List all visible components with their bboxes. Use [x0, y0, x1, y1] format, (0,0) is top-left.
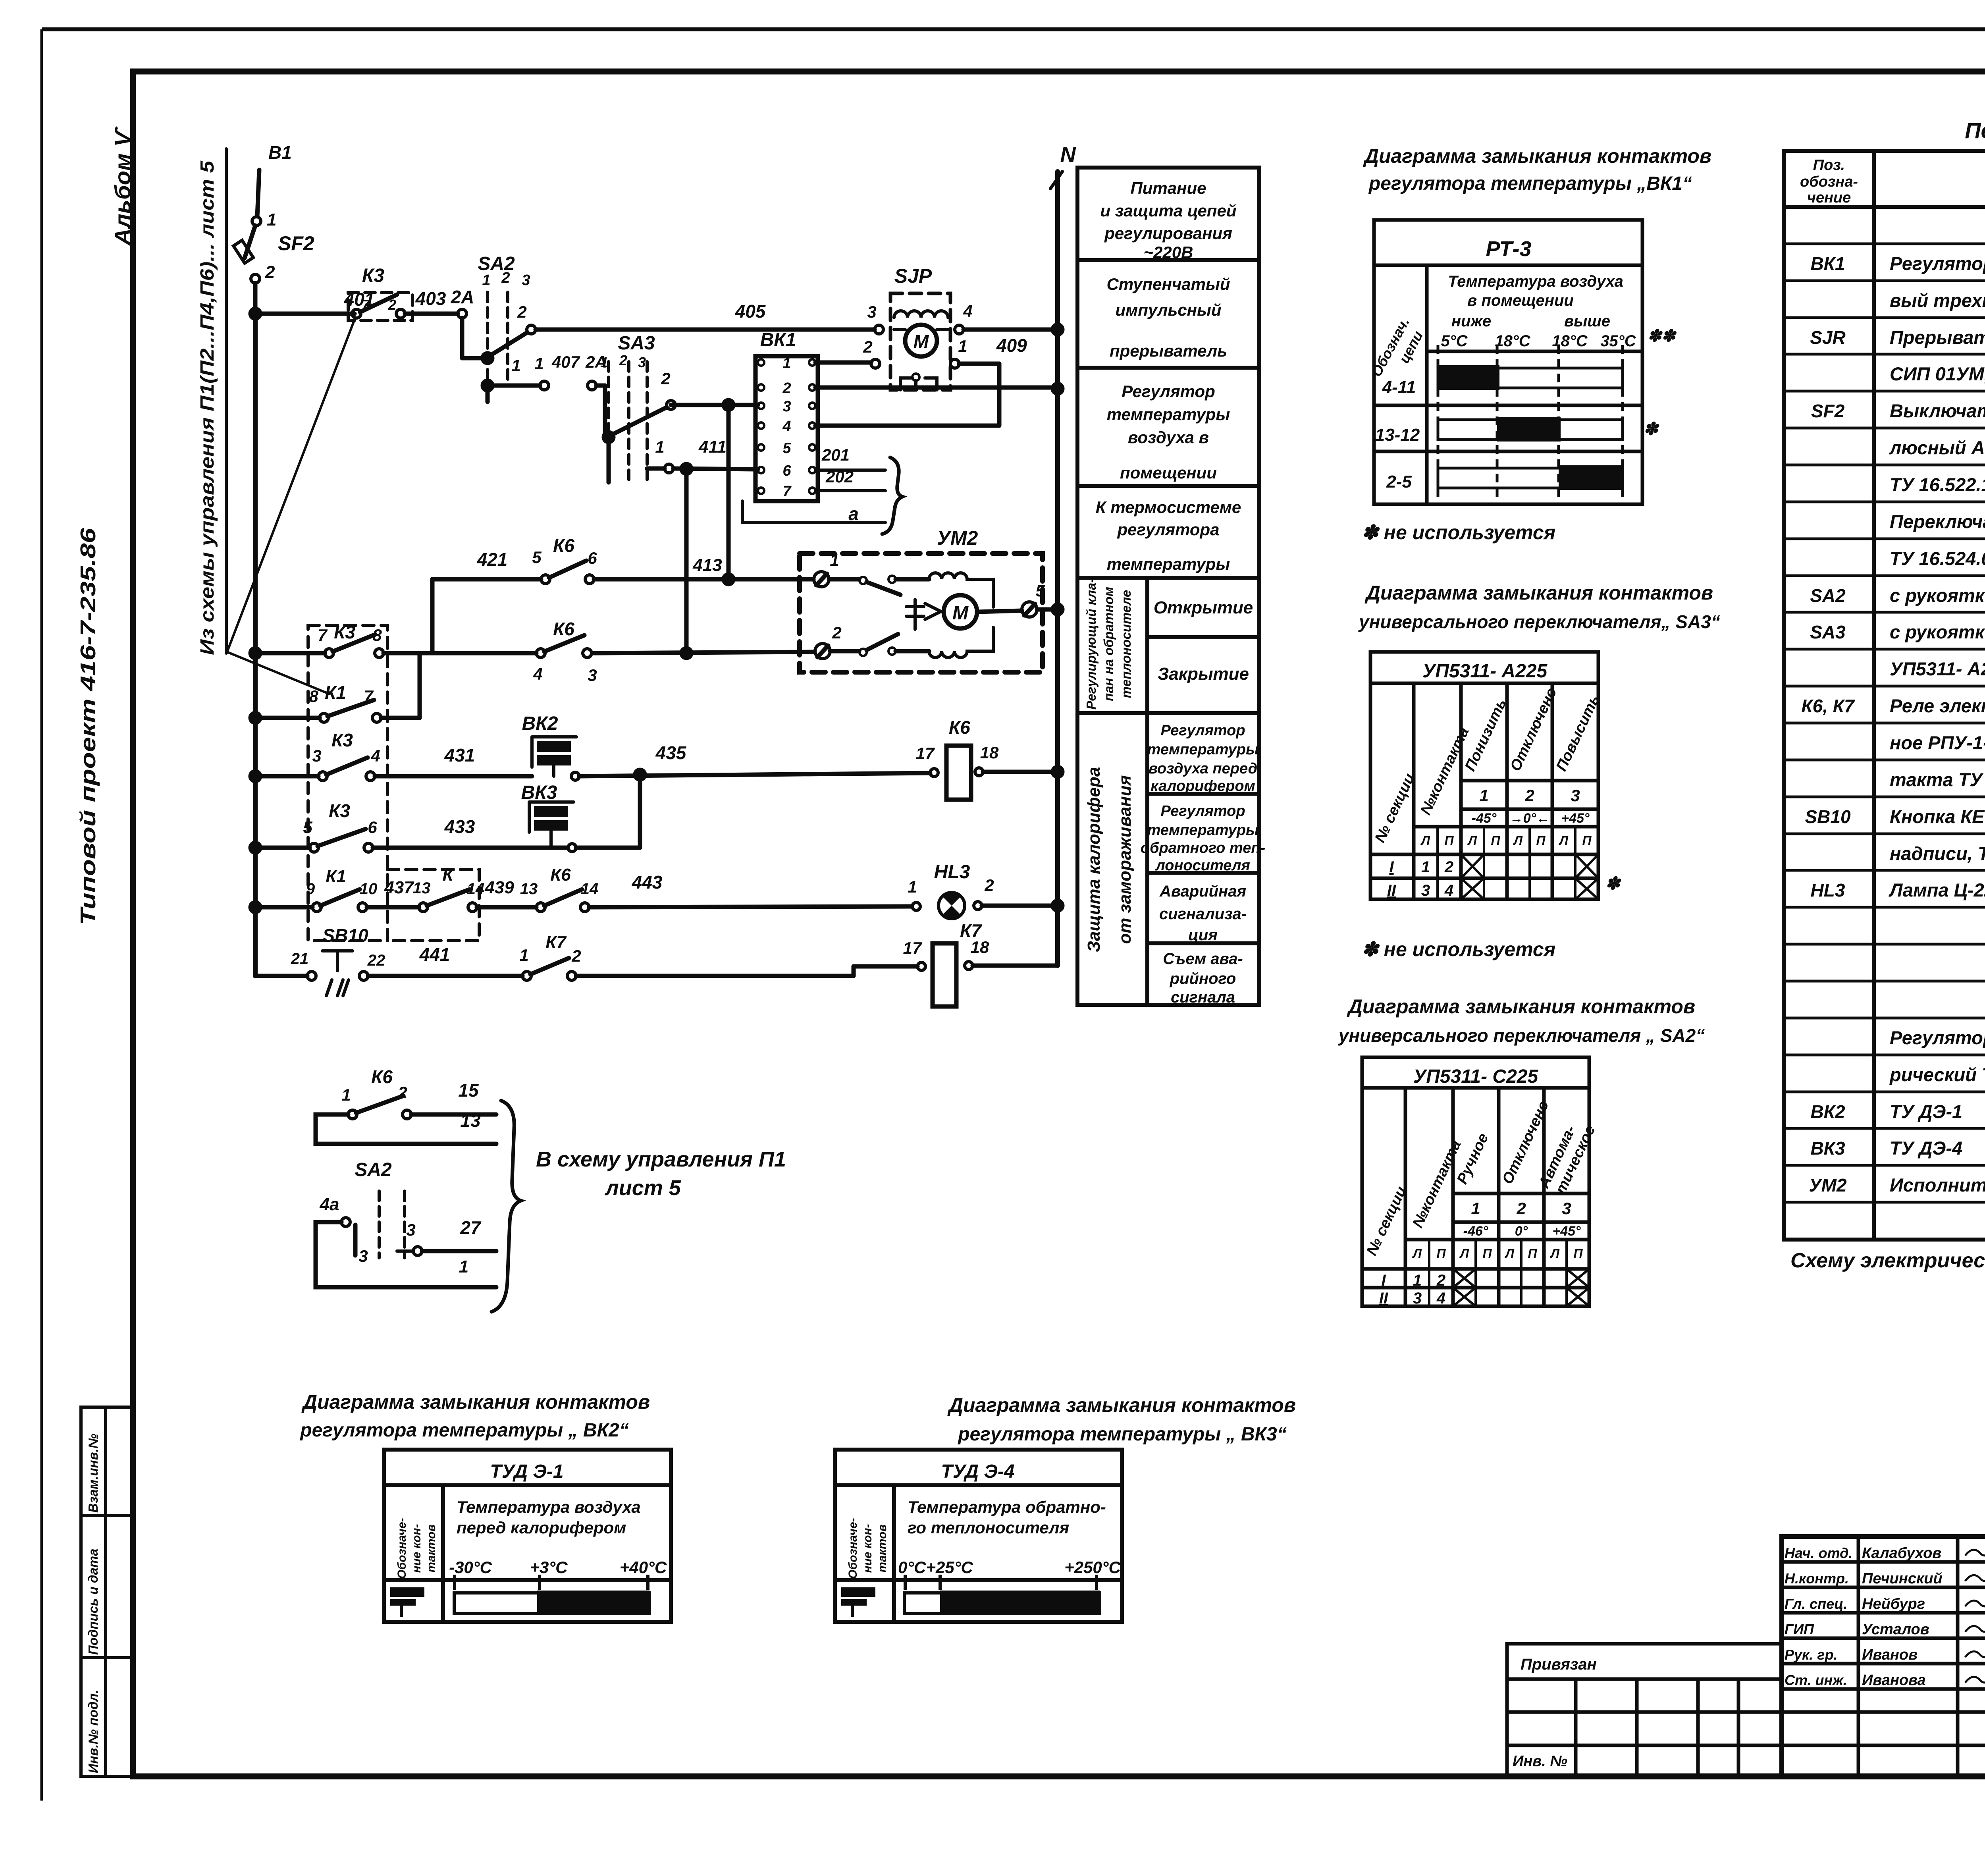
- svg-text:4: 4: [963, 302, 972, 320]
- svg-text:405: 405: [735, 301, 766, 322]
- svg-text:3: 3: [1571, 786, 1580, 805]
- svg-text:35°С: 35°С: [1600, 332, 1636, 350]
- svg-text:П: П: [1444, 833, 1454, 848]
- svg-text:5: 5: [303, 818, 312, 837]
- svg-text:ЅВ10: ЅВ10: [1805, 806, 1850, 827]
- svg-text:→0°←: →0°←: [1510, 811, 1550, 826]
- svg-text:регулирования: регулирования: [1104, 224, 1232, 243]
- svg-text:К3: К3: [362, 265, 385, 286]
- svg-text:0°С+25°С: 0°С+25°С: [898, 1558, 973, 1577]
- svg-text:Выключатель автоматический од: Выключатель автоматический однопо-: [1890, 400, 1985, 421]
- svg-text:Температура обратно-: Температура обратно-: [908, 1498, 1106, 1516]
- svg-text:9: 9: [306, 880, 315, 898]
- svg-text:Диаграмма замыкания контактов: Диаграмма замыкания контактов: [301, 1391, 650, 1413]
- svg-text:2: 2: [661, 369, 670, 388]
- svg-text:✽✽: ✽✽: [1648, 326, 1677, 345]
- svg-text:2А: 2А: [451, 287, 474, 307]
- svg-text:1: 1: [511, 356, 520, 375]
- svg-text:202: 202: [825, 467, 854, 486]
- svg-text:К6: К6: [949, 717, 970, 738]
- svg-text:II: II: [1387, 882, 1396, 899]
- svg-text:421: 421: [477, 549, 508, 570]
- svg-text:✽ не используется: ✽ не используется: [1362, 938, 1555, 960]
- svg-text:13-12: 13-12: [1375, 425, 1420, 445]
- svg-text:ние кон-: ние кон-: [861, 1524, 874, 1573]
- svg-text:✽: ✽: [1605, 874, 1622, 893]
- svg-text:ВК3: ВК3: [1810, 1138, 1845, 1159]
- svg-text:8: 8: [372, 626, 382, 644]
- svg-text:441: 441: [419, 944, 450, 965]
- svg-text:прерыватель: прерыватель: [1110, 341, 1227, 360]
- svg-text:П: П: [1536, 833, 1546, 848]
- svg-text:2: 2: [863, 337, 872, 356]
- svg-text:температуры: температуры: [1107, 555, 1230, 573]
- svg-text:Открытие: Открытие: [1154, 598, 1253, 617]
- svg-text:Л: Л: [1412, 1246, 1422, 1261]
- svg-text:17: 17: [903, 939, 922, 957]
- svg-text:2: 2: [619, 352, 627, 368]
- svg-text:Н.контр.: Н.контр.: [1785, 1570, 1849, 1587]
- svg-text:М: М: [913, 331, 929, 352]
- svg-text:Диаграмма замыкания контактов: Диаграмма замыкания контактов: [1364, 582, 1713, 604]
- svg-text:Исполнительный механизм М90-: Исполнительный механизм М90-063/63: [1890, 1174, 1985, 1195]
- svg-text:К3: К3: [334, 622, 355, 642]
- svg-text:обозна-: обозна-: [1800, 174, 1858, 190]
- svg-text:4: 4: [533, 665, 542, 683]
- svg-text:18: 18: [971, 938, 989, 956]
- svg-text:Рук. гр.: Рук. гр.: [1785, 1647, 1838, 1663]
- svg-text:Инв. №: Инв. №: [1513, 1753, 1567, 1770]
- svg-text:К6: К6: [553, 535, 574, 556]
- svg-text:14: 14: [581, 880, 599, 898]
- svg-text:3: 3: [1562, 1199, 1571, 1218]
- svg-text:Регулирующий кла-: Регулирующий кла-: [1084, 578, 1098, 710]
- svg-text:2: 2: [984, 876, 994, 895]
- svg-text:3: 3: [867, 303, 876, 321]
- svg-text:27: 27: [460, 1217, 482, 1238]
- svg-text:14: 14: [467, 880, 485, 898]
- svg-text:Обозначе-: Обозначе-: [395, 1518, 409, 1579]
- svg-text:Печинский: Печинский: [1862, 1570, 1943, 1587]
- svg-text:го теплоносителя: го теплоносителя: [908, 1518, 1069, 1537]
- svg-text:ВК2: ВК2: [1810, 1101, 1845, 1122]
- svg-text:Регулятор: Регулятор: [1160, 722, 1245, 739]
- svg-text:1: 1: [267, 210, 276, 229]
- svg-text:1: 1: [482, 272, 490, 289]
- svg-text:N: N: [1060, 143, 1076, 167]
- svg-text:2: 2: [517, 303, 526, 321]
- svg-text:+45°: +45°: [1552, 1224, 1581, 1239]
- svg-text:К3: К3: [329, 800, 350, 821]
- svg-text:2: 2: [388, 297, 396, 313]
- svg-text:Лампа Ц-220-10, ГОСТ 5011-77: Лампа Ц-220-10, ГОСТ 5011-77: [1889, 879, 1985, 900]
- svg-text:Подпись и дата: Подпись и дата: [86, 1549, 100, 1655]
- svg-text:ВК1: ВК1: [1810, 253, 1845, 274]
- svg-text:Ступенчатый: Ступенчатый: [1106, 275, 1230, 293]
- svg-text:3: 3: [406, 1220, 415, 1239]
- svg-text:вый трехпозиционный РТ-3: вый трехпозиционный РТ-3: [1890, 290, 1985, 311]
- svg-text:Л: Л: [1513, 833, 1523, 848]
- svg-text:ТУ 16.522.110-74: ТУ 16.522.110-74: [1890, 474, 1985, 495]
- svg-text:теплоносителе: теплоносителе: [1119, 590, 1133, 698]
- svg-text:Кнопка КЕ-011У3, исп.2, крас: Кнопка КЕ-011У3, исп.2, красный без: [1890, 806, 1985, 827]
- svg-text:Питание: Питание: [1131, 179, 1206, 197]
- svg-text:воздуха в: воздуха в: [1128, 428, 1209, 447]
- svg-text:1: 1: [958, 337, 967, 355]
- svg-text:Температура воздуха: Температура воздуха: [1448, 273, 1623, 290]
- svg-text:Л: Л: [1467, 833, 1477, 848]
- svg-text:К1: К1: [326, 867, 346, 886]
- svg-text:✽: ✽: [1644, 419, 1660, 439]
- svg-text:-46°: -46°: [1463, 1224, 1488, 1239]
- svg-text:сигнализа-: сигнализа-: [1159, 905, 1247, 923]
- svg-text:ЅF2: ЅF2: [1811, 401, 1845, 421]
- svg-text:2: 2: [782, 380, 791, 397]
- svg-text:4а: 4а: [320, 1195, 339, 1214]
- svg-text:ЅА2: ЅА2: [1810, 585, 1846, 606]
- svg-text:температуры: температуры: [1147, 741, 1259, 758]
- svg-text:Л: Л: [1559, 833, 1569, 848]
- svg-text:2: 2: [1524, 786, 1534, 805]
- svg-text:407: 407: [551, 353, 580, 371]
- svg-text:ЅЈР: ЅЈР: [894, 265, 932, 287]
- svg-text:ЅВ10: ЅВ10: [322, 925, 368, 946]
- svg-text:регулятора: регулятора: [1117, 520, 1219, 539]
- svg-text:3: 3: [522, 272, 530, 289]
- svg-text:Переключатель универсальный: Переключатель универсальный ,: [1890, 511, 1985, 532]
- svg-text:18°С: 18°С: [1552, 332, 1588, 350]
- svg-text:Защита калорифера: Защита калорифера: [1084, 767, 1104, 952]
- svg-text:HL3: HL3: [934, 862, 970, 883]
- svg-text:6: 6: [782, 463, 791, 479]
- svg-text:УП5311- С225: УП5311- С225: [1413, 1066, 1539, 1087]
- svg-text:ция: ция: [1188, 926, 1218, 944]
- svg-text:13: 13: [460, 1110, 481, 1131]
- svg-text:Калабухов: Калабухов: [1862, 1545, 1941, 1562]
- svg-text:4: 4: [1444, 882, 1453, 899]
- svg-text:ВК1: ВК1: [760, 330, 796, 351]
- svg-text:18°С: 18°С: [1495, 332, 1530, 350]
- svg-text:2: 2: [397, 1083, 407, 1102]
- svg-text:13: 13: [520, 880, 538, 898]
- svg-text:ние кон-: ние кон-: [410, 1524, 423, 1573]
- svg-text:воздуха перед: воздуха перед: [1149, 760, 1257, 777]
- svg-text:П: П: [1528, 1246, 1537, 1261]
- svg-text:К6: К6: [371, 1066, 393, 1087]
- svg-text:универсального переключателя„: универсального переключателя„ ЅА3“: [1358, 611, 1720, 632]
- svg-text:5°С: 5°С: [1441, 332, 1468, 350]
- svg-text:435: 435: [655, 742, 687, 763]
- svg-text:1: 1: [830, 551, 839, 569]
- svg-text:РТ-3: РТ-3: [1486, 237, 1532, 261]
- svg-text:ЅА3: ЅА3: [1810, 622, 1846, 642]
- svg-text:4: 4: [1436, 1290, 1445, 1307]
- svg-text:с рукояткой овальной формы УП: с рукояткой овальной формы УП5311-С225: [1890, 585, 1985, 606]
- svg-text:чение: чение: [1807, 189, 1851, 206]
- svg-text:Регулятор: Регулятор: [1160, 803, 1245, 819]
- svg-text:Инв.№ подл.: Инв.№ подл.: [86, 1690, 100, 1773]
- svg-text:ЅА3: ЅА3: [618, 333, 655, 354]
- svg-text:2-5: 2-5: [1386, 472, 1412, 492]
- svg-text:17: 17: [916, 744, 935, 763]
- svg-text:такта ТУ 16.523.020-76: такта ТУ 16.523.020-76: [1890, 769, 1985, 790]
- svg-text:К3: К3: [331, 730, 353, 750]
- svg-text:1: 1: [519, 946, 528, 964]
- svg-text:в помещении: в помещении: [1467, 292, 1574, 309]
- svg-text:импульсный: импульсный: [1115, 301, 1221, 319]
- svg-text:К6, К7: К6, К7: [1801, 696, 1855, 716]
- svg-text:Съем ава-: Съем ава-: [1163, 950, 1243, 968]
- svg-text:ТУ ДЭ-1: ТУ ДЭ-1: [1890, 1101, 1962, 1122]
- svg-text:лист 5: лист 5: [604, 1176, 681, 1200]
- svg-text:0°: 0°: [1515, 1224, 1528, 1239]
- svg-text:Поз.: Поз.: [1813, 157, 1845, 174]
- svg-text:регулятора температуры „ВК1“: регулятора температуры „ВК1“: [1368, 173, 1692, 194]
- svg-text:УП5311- А225: УП5311- А225: [1890, 658, 1985, 679]
- svg-text:а: а: [848, 503, 859, 524]
- svg-text:ное РПУ-1-365,~220В,50ГЦ , 23: ное РПУ-1-365,~220В,50ГЦ , 23+2р кон-: [1890, 732, 1985, 753]
- svg-text:ТУД Э-1: ТУД Э-1: [490, 1461, 563, 1482]
- svg-text:1: 1: [655, 438, 664, 456]
- svg-text:люсный А63-71У3,~220В,Ун=1,0: люсный А63-71У3,~220В,Ун=1,0А, Уотс:=1,3…: [1889, 437, 1985, 458]
- svg-text:Гл. спец.: Гл. спец.: [1785, 1596, 1847, 1612]
- svg-text:403: 403: [415, 288, 446, 309]
- svg-text:ЅА2: ЅА2: [355, 1159, 392, 1180]
- svg-text:ЅЈR: ЅЈR: [1810, 327, 1845, 348]
- svg-text:Регулятор температуры дилатоме: Регулятор температуры дилатомет-: [1890, 1027, 1985, 1048]
- svg-text:✽ не используется: ✽ не используется: [1362, 521, 1555, 544]
- svg-text:П: П: [1582, 833, 1592, 848]
- svg-text:431: 431: [444, 745, 475, 765]
- svg-text:Иванова: Иванова: [1862, 1672, 1926, 1689]
- svg-text:2: 2: [571, 947, 581, 965]
- svg-text:-45°: -45°: [1472, 811, 1497, 826]
- svg-text:ниже: ниже: [1451, 312, 1491, 330]
- svg-text:тактов: тактов: [425, 1524, 438, 1572]
- svg-text:22: 22: [367, 952, 385, 969]
- svg-text:5: 5: [1035, 581, 1045, 600]
- svg-text:ВК3: ВК3: [521, 782, 557, 803]
- svg-text:6: 6: [368, 818, 377, 837]
- svg-text:надписи, ТУ16. 526 . 407- 76: надписи, ТУ16. 526 . 407- 76: [1890, 843, 1985, 864]
- svg-text:Иванов: Иванов: [1862, 1647, 1918, 1663]
- svg-text:5: 5: [532, 548, 542, 567]
- svg-text:21: 21: [291, 950, 309, 968]
- svg-text:Закрытие: Закрытие: [1158, 664, 1249, 684]
- svg-text:439: 439: [484, 878, 514, 897]
- svg-text:II: II: [1379, 1290, 1388, 1307]
- svg-text:413: 413: [692, 555, 722, 575]
- svg-text:Регулятор температуры полупров: Регулятор температуры полупроводнико-: [1890, 253, 1985, 274]
- svg-text:К1: К1: [325, 682, 346, 703]
- svg-text:ТУ ДЭ-4: ТУ ДЭ-4: [1890, 1138, 1962, 1159]
- svg-text:и защита цепей: и защита цепей: [1100, 201, 1237, 220]
- svg-text:-30°С: -30°С: [449, 1558, 492, 1577]
- svg-text:I: I: [1381, 1272, 1386, 1289]
- svg-text:401: 401: [344, 289, 375, 310]
- svg-text:В схему управления П1: В схему управления П1: [536, 1147, 786, 1171]
- svg-text:443: 443: [632, 872, 663, 893]
- svg-text:13: 13: [413, 879, 431, 897]
- svg-text:3: 3: [312, 746, 321, 765]
- svg-text:2: 2: [265, 262, 275, 282]
- svg-text:Обозначе-: Обозначе-: [846, 1518, 860, 1579]
- svg-text:УМ2: УМ2: [937, 527, 978, 549]
- svg-text:1: 1: [459, 1257, 468, 1276]
- svg-text:Диаграмма замыкания контактов: Диаграмма замыкания контактов: [947, 1394, 1296, 1416]
- svg-text:2: 2: [832, 623, 841, 642]
- svg-text:8: 8: [309, 687, 318, 706]
- svg-text:П: П: [1436, 1246, 1446, 1261]
- svg-text:от замораживания: от замораживания: [1115, 775, 1135, 944]
- svg-text:2: 2: [1516, 1199, 1526, 1218]
- svg-text:универсального переключателя „: универсального переключателя „ ЅА2“: [1338, 1025, 1705, 1046]
- svg-text:1: 1: [1479, 786, 1488, 805]
- svg-text:7: 7: [364, 687, 374, 706]
- svg-text:регулятора температуры „ ВК2“: регулятора температуры „ ВК2“: [299, 1420, 628, 1441]
- svg-text:Аварийная: Аварийная: [1159, 883, 1246, 900]
- svg-text:409: 409: [996, 335, 1027, 356]
- svg-text:Альбом Ѵ: Альбом Ѵ: [110, 126, 135, 247]
- svg-text:10: 10: [360, 880, 378, 898]
- svg-text:температуры: температуры: [1147, 822, 1259, 839]
- svg-text:Температура воздуха: Температура воздуха: [457, 1498, 641, 1516]
- svg-text:сигнала: сигнала: [1171, 989, 1235, 1006]
- svg-text:2: 2: [1436, 1272, 1445, 1289]
- svg-text:Усталов: Усталов: [1862, 1621, 1929, 1638]
- svg-text:433: 433: [444, 816, 475, 837]
- svg-text:тактов: тактов: [876, 1524, 889, 1572]
- svg-text:УП5311- А225: УП5311- А225: [1422, 661, 1548, 682]
- svg-text:5: 5: [782, 440, 791, 457]
- svg-text:3: 3: [1421, 882, 1430, 899]
- svg-text:Схему электрическую принципи: Схему электрическую принципиальную управ…: [1790, 1249, 1985, 1272]
- svg-text:Из схемы управления П1(П2...П4: Из схемы управления П1(П2...П4,П6)... ли…: [197, 160, 218, 655]
- svg-text:I: I: [1389, 858, 1394, 876]
- svg-text:лоносителя: лоносителя: [1155, 857, 1250, 874]
- svg-text:Прерыватель ступенчатый импуль: Прерыватель ступенчатый импульсный: [1890, 327, 1985, 348]
- svg-text:+40°С: +40°С: [620, 1558, 667, 1577]
- svg-text:рийного: рийного: [1170, 970, 1236, 987]
- svg-text:К: К: [442, 865, 454, 885]
- svg-text:3: 3: [782, 398, 791, 415]
- svg-text:ВК2: ВК2: [522, 713, 558, 734]
- svg-text:Диаграмма замыкания контактов: Диаграмма замыкания контактов: [1363, 145, 1711, 167]
- svg-text:3: 3: [1413, 1290, 1422, 1307]
- svg-text:15: 15: [458, 1080, 479, 1101]
- svg-text:ГИП: ГИП: [1785, 1621, 1814, 1637]
- svg-text:пан на обратном: пан на обратном: [1101, 587, 1116, 701]
- svg-text:+250°С: +250°С: [1064, 1558, 1121, 1577]
- svg-text:2: 2: [501, 270, 510, 286]
- svg-text:Взам.инв.№: Взам.инв.№: [86, 1433, 100, 1513]
- svg-text:4-11: 4-11: [1382, 378, 1416, 397]
- svg-text:К7: К7: [545, 933, 567, 952]
- svg-text:2А: 2А: [585, 353, 607, 371]
- svg-text:3: 3: [358, 1247, 368, 1265]
- svg-text:обратного теп-: обратного теп-: [1141, 840, 1265, 856]
- svg-text:ТУД Э-4: ТУД Э-4: [941, 1461, 1014, 1482]
- svg-text:К6: К6: [550, 865, 571, 885]
- svg-text:Нач. отд.: Нач. отд.: [1785, 1545, 1852, 1561]
- svg-text:Нейбург: Нейбург: [1862, 1596, 1925, 1612]
- svg-text:выше: выше: [1564, 312, 1610, 330]
- svg-text:УМ2: УМ2: [1809, 1175, 1846, 1195]
- svg-text:Привязан: Привязан: [1521, 1656, 1597, 1673]
- svg-text:НL3: НL3: [1811, 880, 1845, 900]
- svg-text:СИП 01УМ,~220В,50Гц,ТУ 50.58-7: СИП 01УМ,~220В,50Гц,ТУ 50.58-76: [1890, 363, 1985, 384]
- svg-text:помещении: помещении: [1120, 463, 1217, 482]
- svg-text:4: 4: [370, 746, 380, 765]
- svg-text:6: 6: [588, 549, 597, 567]
- svg-text:1: 1: [534, 354, 543, 373]
- svg-text:1: 1: [341, 1085, 351, 1104]
- svg-text:Ст. инж.: Ст. инж.: [1785, 1672, 1847, 1688]
- svg-text:В1: В1: [268, 142, 292, 163]
- svg-text:калорифером: калорифером: [1151, 778, 1255, 794]
- svg-text:1: 1: [1421, 858, 1430, 876]
- svg-text:П: П: [1482, 1246, 1492, 1261]
- svg-text:7: 7: [782, 483, 792, 500]
- svg-text:с рукояткой револьверной фор: с рукояткой револьверной формы: [1890, 621, 1985, 642]
- svg-text:1: 1: [1413, 1272, 1422, 1289]
- svg-text:+45°: +45°: [1561, 811, 1590, 826]
- svg-text:1: 1: [782, 355, 791, 372]
- svg-text:перед калорифером: перед калорифером: [457, 1518, 626, 1537]
- svg-text:температуры: температуры: [1107, 405, 1230, 424]
- svg-text:4: 4: [782, 418, 791, 435]
- svg-text:1: 1: [908, 877, 917, 896]
- svg-text:3: 3: [638, 354, 646, 370]
- svg-text:Л: Л: [1459, 1246, 1469, 1261]
- svg-text:Л: Л: [1420, 833, 1430, 848]
- svg-text:П: П: [1491, 833, 1500, 848]
- svg-text:регулятора температуры „ ВК3“: регулятора температуры „ ВК3“: [957, 1424, 1286, 1445]
- svg-text:18: 18: [980, 743, 999, 762]
- svg-text:7: 7: [318, 626, 328, 644]
- svg-text:К6: К6: [553, 619, 574, 639]
- svg-text:2: 2: [1444, 858, 1453, 876]
- svg-text:К термосистеме: К термосистеме: [1096, 498, 1241, 517]
- svg-text:+3°С: +3°С: [530, 1558, 568, 1577]
- svg-text:Л: Л: [1505, 1246, 1515, 1261]
- svg-text:М: М: [952, 603, 969, 624]
- svg-text:411: 411: [698, 437, 727, 457]
- svg-text:П: П: [1573, 1246, 1583, 1261]
- svg-text:7: 7: [362, 297, 370, 313]
- svg-text:ТУ 16.524.074-75,: ТУ 16.524.074-75,: [1890, 548, 1985, 569]
- svg-text:3: 3: [588, 666, 597, 684]
- svg-text:Типовой проект 416-7-235.86: Типовой проект 416-7-235.86: [76, 528, 100, 925]
- svg-text:Перечень элементов: Перечень элементов: [1965, 118, 1985, 143]
- svg-text:Реле электромагнитное универ: Реле электромагнитное универсаль-: [1890, 695, 1985, 716]
- svg-text:Диаграмма замыкания контактов: Диаграмма замыкания контактов: [1347, 995, 1695, 1018]
- svg-text:рический ТУ 25.03.1074-67: рический ТУ 25.03.1074-67: [1889, 1064, 1985, 1085]
- svg-text:Регулятор: Регулятор: [1122, 382, 1215, 401]
- svg-text:201: 201: [821, 445, 850, 464]
- svg-text:Л: Л: [1550, 1246, 1560, 1261]
- svg-text:SF2: SF2: [278, 232, 314, 255]
- svg-text:~220В: ~220В: [1144, 243, 1193, 262]
- svg-text:1: 1: [1471, 1199, 1480, 1218]
- svg-text:437: 437: [384, 878, 414, 897]
